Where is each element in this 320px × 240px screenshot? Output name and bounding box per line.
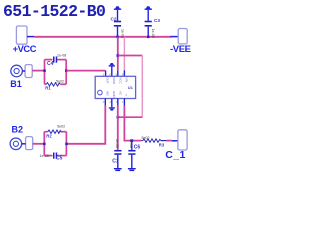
- wire pin2 bottom stub: [111, 99, 113, 108]
- junction RC2 left: [43, 143, 46, 146]
- svg-text:C4: C4: [47, 61, 54, 67]
- svg-text:1e-08: 1e-08: [151, 29, 155, 38]
- wire +VCC stub: [27, 36, 34, 38]
- op-amp U1 body: [95, 76, 135, 98]
- svg-text:C1: C1: [112, 159, 119, 165]
- wire C_1 stub: [172, 140, 178, 142]
- svg-text:B2: B2: [12, 125, 24, 135]
- svg-text:U1: U1: [128, 85, 134, 90]
- U1 pin labels bottom: [106, 91, 129, 99]
- resistor R2: [46, 125, 65, 139]
- wire pin4 bottom stub: [123, 99, 125, 106]
- svg-text:1e-08: 1e-08: [57, 54, 66, 58]
- wire branch horizontal y117.2: [118, 116, 143, 118]
- wire B1 circle stub: [22, 70, 25, 72]
- svg-text:5e02: 5e02: [56, 79, 64, 83]
- resistor R1: [45, 79, 64, 90]
- svg-text:651-1522-B0: 651-1522-B0: [3, 2, 105, 21]
- capacitor C6: [128, 139, 140, 168]
- svg-text:R3: R3: [159, 143, 165, 148]
- capacitor C3: [145, 10, 161, 38]
- svg-text:-VEE: -VEE: [170, 44, 191, 55]
- power flag above C2: [114, 6, 121, 10]
- svg-text:C5: C5: [56, 156, 63, 162]
- junction at 117.8,55.5: [117, 54, 120, 57]
- svg-text:GND: GND: [112, 91, 116, 99]
- svg-text:C6: C6: [134, 145, 141, 151]
- svg-text:C3: C3: [154, 18, 160, 23]
- svg-text:GND: GND: [112, 77, 116, 85]
- wire pin1 top stub: [105, 71, 107, 77]
- capacitor C5: [40, 153, 63, 162]
- wire pin1 bottom stub: [104, 99, 106, 106]
- wire power rail: [34, 36, 172, 38]
- svg-text:R1: R1: [45, 85, 51, 90]
- junction at 117.8,117.2: [117, 116, 120, 119]
- svg-text:4: 4: [109, 100, 111, 104]
- capacitor C4: [47, 54, 66, 68]
- wire B2 to RC2: [33, 143, 45, 145]
- wire R3 to C_1: [166, 140, 171, 142]
- wire B2 circle stub: [22, 143, 26, 145]
- port -VEE: [170, 29, 191, 56]
- svg-text:+VCC: +VCC: [13, 44, 37, 54]
- svg-text:1e-08: 1e-08: [115, 139, 119, 148]
- B1 pad rect: [25, 65, 32, 78]
- wire B1 to RC1: [32, 70, 44, 72]
- junction RC1 left: [43, 69, 46, 72]
- svg-text:C_1: C_1: [165, 149, 185, 161]
- wire pin4 top stub: [123, 70, 125, 76]
- wire rail to pin3 vertical: [117, 37, 119, 71]
- RC1 block frame: [45, 60, 67, 85]
- B2 pad rect: [26, 137, 33, 150]
- wire pin1 to B2 row: [66, 106, 105, 144]
- wire pin3 top stub: [117, 70, 119, 76]
- junction C2-rail: [116, 36, 119, 39]
- svg-text:3: 3: [103, 100, 105, 104]
- capacitor C2: [111, 10, 125, 38]
- svg-text:OUT: OUT: [106, 77, 110, 84]
- ground under U1 pin2: [109, 107, 115, 110]
- svg-text:VIN: VIN: [125, 77, 129, 82]
- wire pin4 down and right: [124, 106, 141, 141]
- svg-text:5e02: 5e02: [142, 136, 150, 140]
- svg-text:B1: B1: [10, 79, 22, 89]
- power flag above C3: [145, 6, 152, 10]
- capacitor C1: [112, 139, 121, 168]
- junction RC1 right: [65, 69, 68, 72]
- svg-text:IN2: IN2: [106, 91, 110, 96]
- resistor R3: [141, 136, 166, 147]
- svg-text:5e02: 5e02: [57, 125, 65, 129]
- connector B1: [10, 65, 22, 89]
- wire pin3 bottom stub: [117, 99, 119, 106]
- U1 pin labels top: [106, 77, 129, 85]
- connector B2: [10, 125, 23, 150]
- port C_1: [165, 130, 187, 161]
- ground under C6: [128, 168, 136, 171]
- svg-text:1e-08: 1e-08: [40, 154, 49, 158]
- junction RC2 right: [65, 143, 68, 146]
- wire branch horizontal y55.5: [118, 55, 143, 57]
- junction C6 tap: [131, 139, 134, 142]
- svg-text:1: 1: [122, 100, 124, 104]
- power flag above U1 pin2: [109, 63, 115, 76]
- wire branch vertical x142.3: [141, 56, 143, 118]
- wire -VEE stub: [171, 36, 178, 38]
- svg-text:VCC: VCC: [118, 77, 122, 84]
- ground under C1: [114, 168, 122, 171]
- wire rail to pin4 vertical: [123, 37, 125, 71]
- svg-text:R2: R2: [46, 133, 52, 138]
- RC2 block frame: [44, 132, 66, 156]
- junction C3-rail: [147, 36, 150, 39]
- wire pin3 down to C1: [117, 106, 119, 150]
- port +VCC: [13, 26, 37, 54]
- wire RC1 to U1 pin: [66, 70, 105, 72]
- svg-text:C2: C2: [111, 16, 117, 21]
- U1 pin numbers: [103, 73, 124, 105]
